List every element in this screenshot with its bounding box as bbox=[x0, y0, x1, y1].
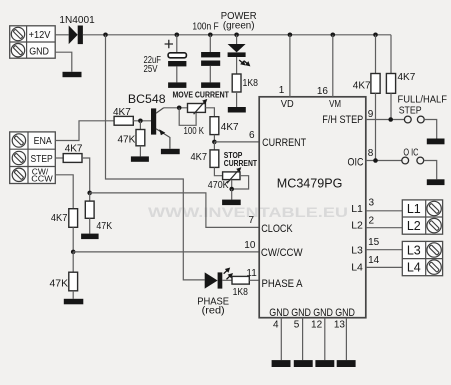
svg-text:CW/CCW: CW/CCW bbox=[261, 247, 303, 259]
pin GND labels bbox=[269, 307, 355, 319]
svg-text:L3: L3 bbox=[351, 244, 363, 256]
wire rail corner to R12 bbox=[390, 35, 392, 74]
svg-text:4K7: 4K7 bbox=[398, 72, 416, 83]
wire node to R5 bbox=[213, 142, 215, 150]
capacitor C2 100nF bbox=[201, 52, 220, 66]
terminal block J3 L1/L2 bbox=[402, 200, 442, 234]
svg-text:STEP: STEP bbox=[399, 105, 422, 117]
potentiometer P2 470K STOP CURRENT bbox=[223, 167, 242, 189]
screw terminal +12V bbox=[11, 27, 24, 40]
wire GND pin4 bbox=[280, 318, 282, 360]
wire collector to pot bbox=[164, 107, 188, 109]
wire R5 to pot P2 bbox=[214, 167, 222, 175]
ground (pin13) bbox=[337, 360, 356, 367]
svg-text:25V: 25V bbox=[144, 64, 158, 75]
svg-text:1K8: 1K8 bbox=[243, 78, 259, 89]
svg-text:4K7: 4K7 bbox=[221, 122, 239, 133]
screw terminal L3 bbox=[427, 243, 441, 257]
diode D1 1N4001 bbox=[69, 26, 83, 45]
screw terminal CW/CCW bbox=[12, 168, 25, 181]
node CURRENT divider bbox=[212, 140, 217, 145]
node STEP junction bbox=[87, 191, 92, 196]
wire pin2 L2 bbox=[366, 227, 403, 229]
wire S2 to ground bbox=[424, 161, 437, 180]
svg-text:MOVE CURRENT: MOVE CURRENT bbox=[173, 90, 229, 99]
svg-text:7: 7 bbox=[248, 215, 254, 226]
label CW/CCW bbox=[31, 166, 52, 183]
svg-text:47K: 47K bbox=[96, 221, 112, 232]
wire STEP node to CLOCK pin bbox=[90, 193, 260, 228]
svg-text:+12V: +12V bbox=[29, 30, 51, 41]
svg-text:L4: L4 bbox=[351, 262, 363, 274]
node collector/pot junction bbox=[177, 106, 182, 111]
wire STEP to R6 bbox=[55, 157, 63, 159]
wire pin1 VD stub bbox=[289, 35, 291, 97]
node P2 wiper junction bbox=[229, 187, 234, 192]
svg-text:13: 13 bbox=[334, 320, 346, 331]
wire C2 to ground bbox=[209, 66, 211, 83]
wire R9 to ground bbox=[72, 291, 74, 299]
svg-text:(green): (green) bbox=[223, 20, 255, 31]
wire LED1 stem bbox=[236, 35, 238, 44]
svg-text:4K7: 4K7 bbox=[113, 107, 131, 118]
wire R12 to pin9 net bbox=[390, 93, 392, 119]
svg-text:4K7: 4K7 bbox=[51, 213, 68, 224]
wire R3 to ground bbox=[139, 146, 141, 157]
svg-text:L4: L4 bbox=[407, 261, 421, 275]
wire R4 to node bbox=[213, 135, 215, 142]
resistor R7 47K (STEP pulldown) bbox=[85, 201, 94, 218]
svg-text:VD: VD bbox=[281, 98, 294, 110]
wire node to R7 bbox=[89, 193, 91, 201]
svg-text:47K: 47K bbox=[50, 278, 69, 289]
wire P2 end wrap bbox=[232, 176, 249, 189]
resistor R12 4K7 (F/H pull-up) bbox=[386, 74, 395, 94]
svg-text:CURRENT: CURRENT bbox=[262, 137, 306, 149]
wire LED1 to R bbox=[236, 57, 238, 74]
svg-text:L1: L1 bbox=[351, 203, 363, 215]
svg-text:1: 1 bbox=[279, 85, 285, 96]
wire +12V feed to phase LED bbox=[106, 35, 205, 280]
ground (R1) bbox=[228, 107, 246, 113]
svg-text:MC3479PG: MC3479PG bbox=[277, 177, 343, 191]
wire GND pin5 bbox=[302, 318, 304, 360]
svg-text:1N4001: 1N4001 bbox=[59, 15, 95, 26]
wire R1 to ground bbox=[236, 92, 238, 107]
wire R11 to pin8 net bbox=[375, 93, 377, 160]
node pin9 junction bbox=[388, 117, 393, 122]
svg-text:2: 2 bbox=[369, 215, 375, 226]
wire 4K7 pull-up column 1 bbox=[375, 35, 377, 74]
wire node to R3 bbox=[139, 121, 141, 130]
svg-text:4K7: 4K7 bbox=[65, 144, 83, 155]
svg-text:1K8: 1K8 bbox=[233, 287, 249, 298]
label STOP CURRENT bbox=[224, 151, 257, 168]
wire CW node to pin10 bbox=[73, 251, 259, 253]
ground (R3) bbox=[131, 156, 149, 161]
transistor Q1 BC548 bbox=[151, 108, 170, 149]
svg-text:L2: L2 bbox=[407, 219, 421, 233]
svg-text:6: 6 bbox=[249, 130, 255, 141]
wire GND terminal to ground bbox=[55, 52, 72, 72]
wire pin15 L3 bbox=[366, 249, 403, 251]
wire S1 to ground bbox=[424, 120, 437, 139]
resistor R8 4K7 (CW) bbox=[69, 209, 78, 228]
svg-text:CCW: CCW bbox=[31, 173, 52, 183]
screw terminal ENA bbox=[12, 134, 25, 147]
svg-text:L1: L1 bbox=[407, 202, 421, 216]
svg-text:14: 14 bbox=[368, 255, 380, 266]
wire +12V rail bbox=[83, 34, 391, 36]
wire P2 to ground bbox=[231, 189, 233, 200]
resistor R3 47K (base pulldown) bbox=[136, 130, 145, 146]
terminal block J4 L3/L4 bbox=[402, 241, 442, 275]
svg-text:10: 10 bbox=[244, 240, 256, 251]
wire R6 to clock node bbox=[82, 158, 90, 193]
ground (power input) bbox=[63, 72, 82, 77]
ground (pin4) bbox=[272, 360, 291, 367]
wire D3 to R10 bbox=[222, 279, 232, 281]
resistor R6 4K7 (STEP) bbox=[63, 154, 82, 163]
potentiometer P1 100K MOVE CURRENT bbox=[188, 99, 208, 114]
ground (P2) bbox=[222, 200, 241, 206]
svg-text:3: 3 bbox=[369, 198, 375, 209]
node CW junction bbox=[71, 250, 76, 255]
svg-text:11: 11 bbox=[246, 268, 257, 279]
svg-text:16: 16 bbox=[317, 86, 329, 97]
wire R8 to node bbox=[72, 227, 74, 252]
wire CW/CCW to R8 bbox=[55, 175, 73, 209]
wire pot wiper return bbox=[179, 108, 196, 126]
wire GND pin13 bbox=[345, 318, 347, 360]
ground (C1) bbox=[168, 82, 186, 88]
screw terminal L2 bbox=[427, 218, 441, 232]
node rail junction LED bbox=[234, 33, 239, 38]
screw terminal GND bbox=[11, 44, 24, 57]
svg-text:4K7: 4K7 bbox=[353, 80, 371, 91]
wire pin9 to switch bbox=[366, 119, 405, 121]
svg-text:47K: 47K bbox=[118, 135, 136, 146]
svg-text:12: 12 bbox=[311, 320, 323, 331]
switch S1 FULL/HALF STEP contacts bbox=[404, 116, 424, 123]
node rail junction VD bbox=[288, 33, 293, 38]
ground (pin12) bbox=[315, 360, 334, 367]
wire capacitor C1 stem bbox=[176, 35, 178, 53]
svg-text:L2: L2 bbox=[351, 220, 363, 232]
label 22uF 25V bbox=[144, 55, 162, 75]
svg-text:STEP: STEP bbox=[31, 154, 53, 165]
node rail junction C2 bbox=[208, 33, 213, 38]
svg-text:(red): (red) bbox=[202, 305, 225, 316]
node pin8 junction bbox=[373, 158, 378, 163]
svg-text:GND: GND bbox=[29, 47, 49, 58]
wire +12V to diode bbox=[55, 34, 68, 36]
svg-text:GND: GND bbox=[269, 307, 289, 319]
svg-text:O IC: O IC bbox=[403, 147, 418, 159]
wire C1 to ground bbox=[176, 66, 178, 82]
wire pin3 L1 bbox=[366, 210, 403, 212]
node rail junction C1 bbox=[175, 33, 180, 38]
resistor R4 4K7 bbox=[210, 117, 219, 135]
svg-text:100 K: 100 K bbox=[184, 126, 205, 137]
screw terminal STEP bbox=[12, 151, 25, 164]
resistor R9 47K (CW pulldown) bbox=[69, 272, 78, 291]
resistor R2 4K7 (base) bbox=[114, 116, 133, 125]
svg-text:100n F: 100n F bbox=[192, 21, 218, 32]
ground (pin5) bbox=[294, 360, 313, 367]
svg-text:ENA: ENA bbox=[34, 136, 52, 147]
svg-text:CLOCK: CLOCK bbox=[261, 223, 293, 235]
svg-text:9: 9 bbox=[368, 109, 374, 120]
svg-text:15: 15 bbox=[368, 237, 380, 248]
ground (C2) bbox=[201, 82, 220, 88]
wire pin8 to switch bbox=[366, 160, 402, 162]
svg-text:PHASE A: PHASE A bbox=[262, 278, 304, 290]
node rail junction VM bbox=[331, 33, 336, 38]
capacitor C1 22uF electrolytic bbox=[165, 40, 187, 67]
node base junction bbox=[138, 119, 143, 124]
wire GND pin12 bbox=[324, 318, 326, 360]
switch S2 OIC contacts bbox=[402, 157, 424, 164]
wire pot to R4 bbox=[205, 108, 214, 117]
ground (S2) bbox=[427, 179, 445, 185]
terminal block J1 +12V/GND bbox=[10, 26, 56, 58]
svg-text:BC548: BC548 bbox=[128, 92, 166, 106]
screw terminal L4 bbox=[427, 260, 441, 274]
ground (R7) bbox=[81, 234, 99, 240]
wire R2 to base bbox=[133, 120, 151, 122]
op IC U1 MC3479PG body bbox=[259, 97, 366, 318]
svg-text:GND: GND bbox=[335, 307, 355, 319]
node rail junction left bbox=[103, 33, 108, 38]
wire pin16 VM stub bbox=[332, 35, 334, 97]
svg-text:4K7: 4K7 bbox=[191, 152, 208, 163]
label POWER (green) bbox=[221, 11, 257, 31]
LED D2 POWER green bbox=[228, 44, 252, 68]
svg-text:4: 4 bbox=[273, 320, 279, 331]
svg-text:GND: GND bbox=[291, 307, 311, 319]
resistor R10 1K8 (phase) bbox=[232, 276, 249, 284]
wire R7 to ground bbox=[89, 218, 91, 233]
svg-text:OIC: OIC bbox=[348, 156, 364, 168]
wire ENA to R2 bbox=[55, 121, 114, 141]
wire pin14 L4 bbox=[366, 266, 403, 268]
resistor R5 4K7 bbox=[210, 150, 219, 168]
LED D3 PHASE red bbox=[205, 266, 235, 289]
svg-text:VM: VM bbox=[329, 98, 341, 110]
resistor R11 4K7 (OIC pull-up) bbox=[371, 74, 380, 94]
wire capacitor C2 stem bbox=[209, 35, 211, 52]
wire node to R9 bbox=[72, 252, 74, 272]
ground (Q1 emitter) bbox=[161, 149, 180, 154]
label PHASE (red) bbox=[197, 296, 229, 317]
resistor R1 1K8 bbox=[232, 74, 241, 92]
svg-text:8: 8 bbox=[368, 148, 374, 159]
terminal block J2 ENA/STEP/CW-CCW bbox=[10, 132, 56, 184]
svg-text:L3: L3 bbox=[407, 244, 421, 258]
svg-text:470K: 470K bbox=[208, 180, 229, 191]
wire R10 to pin11 bbox=[249, 279, 259, 281]
wire node to pin6 bbox=[214, 141, 259, 143]
ground (R9) bbox=[64, 299, 84, 305]
svg-text:GND: GND bbox=[313, 307, 333, 319]
label FULL/HALF STEP bbox=[398, 94, 448, 117]
svg-text:CURRENT: CURRENT bbox=[224, 159, 257, 168]
node rail junction 4K7 bbox=[373, 33, 378, 38]
screw terminal L1 bbox=[427, 201, 441, 215]
svg-text:5: 5 bbox=[294, 320, 300, 331]
svg-text:F/H STEP: F/H STEP bbox=[322, 114, 363, 126]
ground (S1) bbox=[427, 139, 445, 145]
